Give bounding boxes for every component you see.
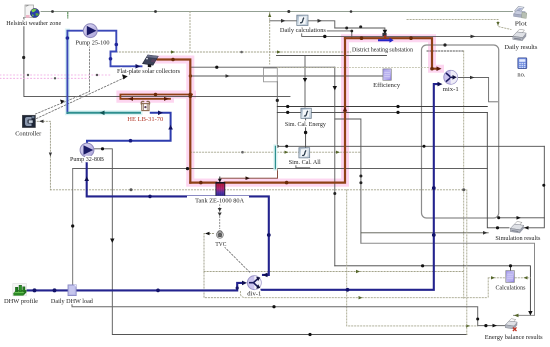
link: dotted TVC output bbox=[204, 234, 240, 298]
wire: district heating line to mix-1 bbox=[345, 38, 438, 68]
link: dotted vertical x=463.7 bbox=[463, 51, 465, 299]
component: DHW profile (green chart) bbox=[13, 284, 27, 296]
link: faint dotted y=67.5 right part bbox=[277, 67, 430, 69]
component: Energy balance results (printer) bbox=[505, 319, 517, 331]
wire: y=265.8 to Calculations and Energy printer bbox=[335, 266, 531, 314]
wire: teal HE cold return bbox=[67, 112, 140, 114]
link: dotted y=271.5 bbox=[204, 271, 464, 273]
link: dotted dark inside macro top bbox=[427, 50, 464, 52]
wire: down to Sim.Cal.Energy x=305 bbox=[304, 56, 306, 108]
svg-text:Calculations: Calculations bbox=[496, 284, 526, 291]
svg-text:Daily results: Daily results bbox=[504, 44, 537, 51]
link: dotted y=277.8 + x=488.2 bbox=[488, 278, 530, 298]
svg-text:Flat-plate solar collectors: Flat-plate solar collectors bbox=[117, 68, 180, 75]
wire: long info line y=146.3 bbox=[277, 145, 544, 147]
component: no. (calculator) bbox=[518, 58, 527, 69]
label: Tank ZE-1000 80A bbox=[187, 196, 249, 204]
wire: Daily calculations to Daily results (y=36.4) bbox=[302, 33, 513, 37]
link: tiny green marks near weather bbox=[67, 13, 69, 19]
wire: y=243.3 to right edge then Energy balance bbox=[361, 243, 535, 315]
wire: tank top thin line y=178.2 bbox=[221, 169, 278, 179]
link: dotted tank to TVC bbox=[219, 204, 221, 228]
wire: bridge y=119 and x=360.9 trunk bbox=[335, 119, 361, 243]
svg-text:Plot: Plot bbox=[515, 21, 527, 28]
wire: HE hot side branch y=94.5/98.8 bbox=[120, 95, 192, 99]
wire: collector info line y=67.2 bbox=[191, 66, 335, 68]
svg-text:Daily calculations: Daily calculations bbox=[280, 27, 326, 34]
wire: to Efficiency y=76 bbox=[191, 75, 383, 77]
link: magenta dotted pair (left edge) bbox=[0, 74, 112, 76]
wire: right edge x=544.3 bbox=[524, 146, 545, 228]
svg-text:Tank ZE-1000 80A: Tank ZE-1000 80A bbox=[195, 198, 244, 205]
wire: long line y=168.6 bbox=[73, 168, 488, 170]
svg-text:no.: no. bbox=[517, 71, 525, 78]
wire: Daily DHW load out y=306.7 to Energy balance bbox=[72, 304, 506, 326]
svg-text:Simulation results: Simulation results bbox=[495, 235, 540, 242]
wire: below district label (y=55.5) bbox=[277, 55, 387, 57]
wire: y=232.8 to macro right bbox=[361, 232, 488, 234]
component: Efficiency (equation book) bbox=[383, 69, 391, 80]
link: controller dotted output bbox=[34, 121, 50, 190]
link: dotted x=346.7 down to bottom right bbox=[347, 190, 478, 326]
wire: teal stub x=275.4 bbox=[274, 146, 276, 168]
svg-text:Controller: Controller bbox=[15, 131, 42, 138]
wire: Sim.Cal.Energy to Sim.Cal.All bbox=[305, 119, 307, 148]
component: Daily results (printer) bbox=[513, 29, 527, 41]
wire: weather to Daily calculations (y=20.8) bbox=[270, 21, 335, 28]
wire: arrow stub into tank top bbox=[219, 177, 221, 180]
svg-text:Pump 25-100: Pump 25-100 bbox=[76, 39, 111, 46]
glow layer: pink glow around hot (brown) wires, cyan around selected teal wire bbox=[67, 31, 440, 183]
link: dotted y=52.2 pump area to mid canvas bbox=[116, 51, 361, 53]
component: mixer mix-1 bbox=[444, 70, 458, 84]
wire: tank to district heating substation riser bbox=[225, 38, 345, 182]
wire: pump 32-80B info link bbox=[94, 149, 467, 335]
wire glow: teal HE cold return bbox=[67, 31, 140, 113]
macro boundary: rounded rectangle (district heating group) bbox=[422, 45, 499, 218]
component: Plot (online plotter) bbox=[514, 7, 527, 19]
link: dashed controller to collector bbox=[37, 77, 128, 119]
glow for teal stub bbox=[273, 146, 277, 168]
wire: tank feed from collector drop bbox=[190, 182, 216, 184]
svg-text:HE LB-31-70: HE LB-31-70 bbox=[127, 116, 164, 123]
wire: mix-1 output thin bbox=[458, 78, 497, 102]
wire glow: collector hot out bbox=[158, 38, 441, 182]
wire glow: HE hot side bbox=[120, 95, 192, 99]
component: Daily calculations (integral plaque) bbox=[297, 15, 308, 25]
component: diverter div-1 bbox=[247, 276, 261, 290]
svg-text:div-1: div-1 bbox=[247, 290, 261, 297]
link: dotted vertical from top line x=190 bbox=[189, 12, 191, 52]
node dots on top line bbox=[51, 10, 352, 13]
wire: y=217.8 into right edge bbox=[499, 217, 545, 219]
wire: pump 25-100 inlet (blue riser) bbox=[67, 31, 83, 113]
component: Calculations (equation book) bbox=[506, 271, 515, 283]
component: flat-plate solar collector icon bbox=[143, 55, 159, 67]
svg-text:Sim. Cal. All: Sim. Cal. All bbox=[289, 159, 321, 166]
component: Sim. Cal. All (integral plaque) bbox=[299, 148, 310, 158]
link: dotted olive x=269.7 bbox=[269, 13, 271, 65]
wire: pump 25-100 outlet to collector bbox=[97, 31, 141, 67]
component: Daily DHW load (Type14) bbox=[68, 285, 76, 296]
component: District heating substation bbox=[378, 33, 394, 43]
component: heat exchanger HE LB-31-70 bbox=[141, 101, 149, 110]
wire glow: tank feed bbox=[190, 179, 345, 187]
wire: collector hot out down to tank level bbox=[158, 60, 191, 183]
component: Sim. Cal. Energy (integral plaque) bbox=[301, 108, 311, 118]
svg-text:Energy balance results: Energy balance results bbox=[485, 334, 543, 341]
svg-text:TVC: TVC bbox=[215, 241, 227, 248]
wire: x=72.7 drop to Daily DHW load bbox=[72, 169, 74, 285]
svg-text:Efficiency: Efficiency bbox=[373, 82, 401, 89]
component: Simulation results (printer) bbox=[510, 222, 524, 234]
wire: weather zone to Plot (top info line) bbox=[41, 11, 513, 13]
component: TVC tempering valve bbox=[216, 230, 223, 238]
component: Controller (Type2) bbox=[22, 115, 35, 127]
link: dotted to Daily results (y=19.4) bbox=[407, 19, 511, 29]
svg-text:Daily DHW load: Daily DHW load bbox=[51, 298, 94, 305]
wire: cascade above district heating substation (y=28) bbox=[335, 28, 385, 33]
link: dotted y=297.7 from div-1 bbox=[240, 292, 487, 298]
component: storage tank Tank ZE-1000 80A bbox=[216, 182, 225, 196]
component: pump Pump 32-80B bbox=[80, 143, 94, 157]
wire: x=487.3 macro drop to Simulation results bbox=[487, 112, 509, 227]
wire: vertical x=277.3 info trunk bbox=[276, 82, 278, 147]
svg-text:DHW profile: DHW profile bbox=[4, 298, 38, 305]
wire: pump 32-80B to tank bottom and div-1 bbox=[87, 155, 269, 275]
svg-text:Helsinki weather zone: Helsinki weather zone bbox=[6, 20, 61, 27]
svg-text:Pump 32-80B: Pump 32-80B bbox=[70, 156, 105, 163]
wire: Sim.Cal.All label connector bbox=[296, 164, 310, 169]
svg-text:District heating substation: District heating substation bbox=[352, 47, 414, 54]
wire: cascade 2 (y=31) bbox=[311, 31, 352, 38]
wire: weather zone down to Controller bbox=[24, 18, 290, 97]
svg-text:mix-1: mix-1 bbox=[443, 86, 459, 93]
link: dashed controller to pump 25-100 bbox=[36, 45, 90, 115]
small empty box bbox=[264, 68, 278, 82]
wires: twin lines to macro y=106.5 / y=112.4 bbox=[277, 107, 487, 113]
svg-text:Sim. Cal. Energy: Sim. Cal. Energy bbox=[285, 121, 327, 128]
link: dotted y=189.8 across canvas bbox=[50, 189, 466, 191]
wire: HE cold out to pump 32-80B bbox=[87, 113, 171, 144]
wire: div-1 to mix-1 (bottom long navy) bbox=[262, 84, 438, 290]
component: Helsinki weather zone (Type15 weather icon) bbox=[25, 5, 39, 18]
link: dashed TVC to div-1 bbox=[225, 247, 251, 273]
wire: vertical x=335 trunk to Calculations bbox=[334, 67, 336, 266]
link: dotted x=466.8 bbox=[466, 190, 468, 335]
wire: DHW profile to Daily DHW load to div-1 bbox=[26, 283, 242, 291]
link: dotted y=152.2 bbox=[191, 151, 361, 153]
component: pump Pump 25-100 bbox=[83, 24, 97, 38]
